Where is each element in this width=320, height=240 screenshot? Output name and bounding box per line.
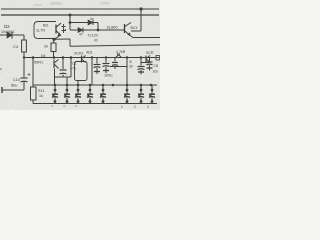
wire left vertical to bus: [23, 52, 25, 58]
wire bottom left output: [2, 89, 24, 91]
wire vertical from rail2 down: [69, 15, 71, 30]
diode D4 label: [90, 17, 94, 21]
wire horizontal y66.5: [110, 66, 127, 68]
capacitor cell 4: [87, 85, 93, 104]
label above bus right: [146, 51, 154, 55]
terminal bottom left: [1, 87, 3, 93]
capacitor C1 (electrolytic): [21, 77, 28, 79]
capacitor C3: [96, 58, 98, 64]
wire step down: [69, 39, 71, 46]
label 50R1 below bus: [34, 61, 43, 65]
diode mark on bus: [116, 54, 121, 58]
resistor R1 label: [13, 44, 19, 49]
capacitor cell 7: [138, 85, 144, 104]
transistor BG1 label: [43, 24, 49, 28]
diode D2 label: [4, 24, 10, 29]
battery cell caps bottom row: [52, 85, 155, 104]
thyristor K1 below bus: [53, 60, 55, 69]
capacitor cell 1: [52, 85, 58, 104]
transistor BG1 collector: [57, 23, 62, 27]
wire top rail 2: [1, 14, 159, 16]
wire mid horizontal to right edge: [70, 45, 160, 47]
wire bottom rail: [33, 103, 157, 105]
capacitor cell 3: [75, 85, 81, 104]
capacitor C1 plus mark: [28, 73, 31, 76]
transistor BG1 outline box: [34, 22, 56, 39]
label R30: [130, 60, 133, 64]
capacitor C1 label: [13, 78, 20, 82]
capacitor C6: [140, 58, 142, 66]
relay box: [75, 62, 88, 81]
resistor R11 (box): [31, 87, 37, 100]
wire loop right vertical: [97, 23, 99, 31]
capacitor C8 label: [154, 64, 158, 68]
wire top rail 1: [1, 8, 159, 10]
wire emitter to right edge: [130, 36, 160, 38]
resistor R2 label: [44, 45, 48, 49]
thyristor K2 glyph: [81, 56, 83, 63]
node bus dots: [23, 56, 142, 59]
transistor BG1 value: [36, 29, 45, 33]
stray mark x: [0, 66, 2, 71]
label TL43: [88, 34, 98, 38]
wire vertical x92: [91, 58, 93, 86]
diode D2 value 1N4001: [1, 30, 14, 34]
transistor Q2 emitter with arrow: [125, 31, 130, 36]
label BK above bus: [41, 54, 46, 58]
diode D4: [88, 20, 93, 25]
label 47u: [70, 67, 76, 71]
faint print-through smudges: [34, 2, 110, 6]
wire branch: [141, 62, 150, 64]
wire diode loop top: [70, 22, 98, 24]
capacitor C5: [114, 58, 116, 62]
node rail85 dots: [54, 84, 153, 87]
wire stub x67: [66, 77, 68, 85]
label 00: [94, 39, 98, 43]
transistor Q2 collector: [125, 23, 131, 27]
paper noise overlay: [0, 0, 160, 110]
node dot: [69, 21, 72, 24]
label 25u: [70, 62, 77, 66]
label SCR1 above bus left: [74, 52, 84, 56]
capacitor cell 8: [149, 85, 155, 104]
component D box right edge: [156, 56, 160, 61]
capacitor C4 value: [104, 74, 112, 78]
wire stub to Q2 collector: [131, 30, 141, 32]
wire vertical from rail1 down: [140, 9, 142, 31]
capacitor C8: [149, 58, 151, 62]
node emitter junction: [52, 38, 55, 41]
faint marks below rail: [51, 105, 78, 107]
wire vertical x127: [126, 58, 128, 86]
diode D2: [7, 32, 12, 38]
wire vertical x71: [70, 58, 72, 78]
wire left vertical x33: [32, 58, 34, 88]
wire main bus: [24, 57, 159, 59]
label above bus: [86, 51, 93, 55]
wire left vertical upper: [23, 35, 25, 40]
resistor R2 below emitter node: [53, 39, 56, 43]
capacitor cell 2: [64, 85, 70, 104]
capacitor C2 from bus: [62, 58, 64, 70]
label 3L800: [107, 25, 119, 30]
thyristor K3 glyph: [145, 56, 147, 63]
wire diode loop bottom / base wire: [70, 29, 125, 31]
tick marks below bottom rail: [121, 105, 149, 109]
node junction dot on rail2: [69, 14, 72, 17]
wire middle rail y85: [33, 84, 157, 86]
wire emitter to step: [54, 38, 70, 40]
capacitor cell 5: [100, 85, 106, 104]
label above bus mid: [116, 50, 126, 54]
diode D5: [78, 28, 83, 33]
label 47: [79, 33, 83, 37]
wire D2 anode: [0, 34, 24, 36]
transistor Q2 label BCX: [131, 26, 139, 30]
capacitor C4: [105, 58, 107, 63]
capacitor cell 6: [124, 85, 130, 104]
zener diode ZD1: [62, 24, 66, 33]
wire stub x78: [77, 81, 79, 86]
transistor BG1 base bar: [55, 25, 57, 34]
resistor R11 label: [38, 89, 44, 93]
capacitor C1 value: [11, 84, 17, 88]
node junction dot on rail1: [139, 7, 142, 10]
capacitor C1 wire from bus: [23, 58, 25, 78]
node dot: [97, 29, 100, 32]
wire sub horizontal: [55, 76, 72, 78]
transistor BG1 emitter with arrow: [54, 31, 61, 40]
resistor R1 (box): [22, 40, 27, 52]
transistor Q2 base bar: [124, 24, 126, 33]
